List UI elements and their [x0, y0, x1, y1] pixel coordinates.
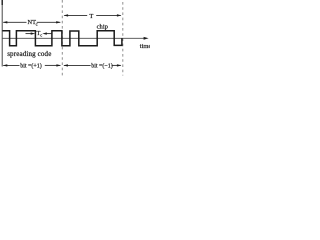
node T arrowhead left [64, 14, 69, 16]
node bit -1 arrow left segment [64, 64, 91, 66]
node Tc arrowhead left [31, 32, 36, 34]
svg-text:bit =(+1): bit =(+1) [20, 63, 42, 70]
node T arrow right segment [96, 14, 121, 16]
svg-text:chip: chip [97, 23, 109, 30]
node bit +1 arrowhead right [56, 64, 61, 66]
svg-text:spreading code: spreading code [7, 50, 51, 58]
node NTc arrow right segment [37, 21, 61, 23]
node bit +1 arrowhead left [3, 64, 8, 66]
svg-text:c: c [36, 22, 38, 27]
node Tc arrow left [26, 33, 33, 35]
node bit -1 arrow right segment [112, 64, 121, 66]
node NTc arrow left segment [3, 21, 26, 23]
node bit boundary dashed line right [122, 2, 124, 76]
node boundary line left [1, 0, 3, 67]
svg-text:c: c [40, 32, 42, 37]
node boundary cap dark top-left [1, 0, 3, 5]
wire time axis [2, 37, 145, 39]
node Tc arrow right [45, 33, 52, 35]
svg-text:bit =(−1): bit =(−1) [91, 63, 113, 70]
node NTc arrowhead right [56, 21, 61, 23]
node bit -1 arrowhead right [117, 64, 122, 66]
node T arrowhead right [117, 14, 122, 16]
node Tc arrowhead right [42, 32, 47, 34]
wire spreading code waveform [3, 31, 122, 46]
node bit boundary dashed line middle [61, 0, 63, 76]
node bit +1 arrow left segment [3, 64, 19, 66]
node NTc arrowhead left [3, 21, 8, 23]
node bit -1 arrowhead left [63, 64, 68, 66]
node time axis arrowhead [144, 37, 149, 40]
svg-text:time: time [140, 43, 150, 50]
svg-text:T: T [89, 13, 93, 20]
background [0, 0, 150, 82]
node bit +1 arrow right segment [45, 64, 61, 66]
node T arrow left segment [64, 14, 87, 16]
